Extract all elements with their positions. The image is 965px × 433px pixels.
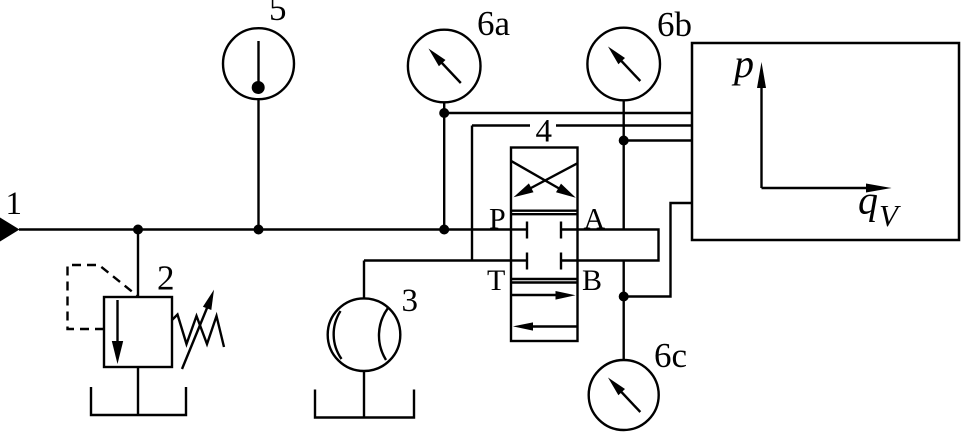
recorder box xyxy=(692,43,959,240)
gauge 6a needle xyxy=(441,62,461,83)
wire 6c signal to box xyxy=(624,203,692,297)
valve center position blocked port T xyxy=(511,259,527,261)
wire 6a signal to box xyxy=(444,112,692,114)
svg-text:5: 5 xyxy=(269,0,287,28)
flow meter 3 circle xyxy=(328,298,401,371)
thermometer 5 circle xyxy=(223,28,294,99)
wire gauge 6a stem xyxy=(443,102,445,229)
wire main supply line P xyxy=(19,228,511,230)
wire A-B jumper loop xyxy=(578,230,659,261)
gauge 6b needle xyxy=(621,60,641,81)
node 6a signal junction xyxy=(439,108,449,118)
wire thermometer branch xyxy=(257,99,259,230)
wire flow meter to tank xyxy=(363,371,365,418)
tank under relief valve xyxy=(91,387,186,415)
valve top position crossed arrow 2 xyxy=(530,164,577,189)
tank under flow meter xyxy=(315,390,414,418)
gauge 6c needle xyxy=(621,391,641,412)
wire flow meter sense line to box (line 4) xyxy=(472,124,530,126)
svg-text:6c: 6c xyxy=(654,336,687,375)
wire T return line to flow meter xyxy=(364,259,511,261)
svg-text:2: 2 xyxy=(157,259,175,298)
wire vertical riser to T line xyxy=(471,126,473,261)
directional valve 4 body xyxy=(511,148,578,342)
valve top position crossed arrow 1 xyxy=(512,161,561,189)
p axis vertical xyxy=(760,80,762,188)
svg-text:6a: 6a xyxy=(477,4,511,43)
svg-text:6b: 6b xyxy=(657,5,692,44)
svg-text:P: P xyxy=(489,203,506,236)
pressure gauge 6b xyxy=(587,28,660,101)
svg-text:B: B xyxy=(582,264,602,297)
svg-text:V: V xyxy=(879,198,901,233)
relief valve 2 body xyxy=(104,297,172,367)
wire relief valve branch xyxy=(137,230,139,298)
relief valve pilot dashed line xyxy=(68,265,138,329)
relief valve adjustment arrow xyxy=(182,308,207,369)
thermometer 5 bulb dot xyxy=(252,81,265,94)
wire 6c branch xyxy=(623,261,625,361)
wire gauge 6b stem xyxy=(623,100,625,229)
node main/thermometer junction xyxy=(254,225,264,235)
svg-text:4: 4 xyxy=(536,114,553,150)
valve bottom position straight arrow left xyxy=(531,325,578,327)
pressure gauge 6a xyxy=(408,30,481,103)
relief valve spring xyxy=(172,315,224,348)
node main/gauge-6a junction xyxy=(439,225,449,235)
svg-text:1: 1 xyxy=(6,186,23,222)
valve position separator lines xyxy=(511,209,578,211)
valve center position blocked port A xyxy=(561,228,578,230)
node 6b signal junction xyxy=(619,136,629,146)
valve center position blocked port B xyxy=(561,259,578,261)
valve center position blocked port P xyxy=(511,228,527,230)
wire drop to flow meter xyxy=(363,261,365,299)
pressure gauge 6c xyxy=(589,360,659,430)
valve bottom position straight arrow right xyxy=(512,294,559,296)
q axis horizontal xyxy=(762,187,871,189)
relief valve 2 internal flow arrow xyxy=(116,300,118,344)
svg-text:T: T xyxy=(487,264,505,297)
node 6c signal junction xyxy=(619,292,629,302)
thermometer 5 stem xyxy=(257,41,259,87)
wire 6b signal to box xyxy=(624,139,692,141)
svg-text:q: q xyxy=(858,178,878,223)
svg-text:3: 3 xyxy=(402,283,419,319)
svg-text:p: p xyxy=(731,41,754,86)
flow meter 3 left arc xyxy=(334,311,342,359)
flow meter 3 right arc xyxy=(379,308,388,360)
node main/relief junction xyxy=(133,225,143,235)
wire relief valve to tank xyxy=(137,367,139,415)
pump inlet arrow 1 xyxy=(0,218,20,242)
